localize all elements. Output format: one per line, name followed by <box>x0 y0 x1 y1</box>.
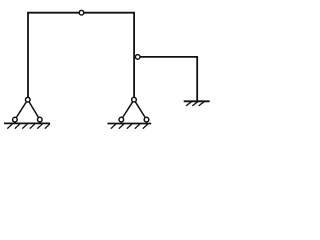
node middle support apex pin <box>132 97 137 102</box>
ground right baseline <box>184 100 210 102</box>
node left support bottom-right pin <box>38 117 43 122</box>
node hinge on middle column <box>135 55 140 60</box>
node hinge on top beam <box>79 10 84 15</box>
wire middle support right link <box>134 100 147 120</box>
node left support bottom-left pin <box>13 117 18 122</box>
wire top beam <box>28 12 134 14</box>
ground right hatching <box>186 102 204 106</box>
ground left baseline <box>4 122 50 124</box>
wire right horizontal beam <box>138 56 198 58</box>
wire middle column <box>133 13 135 100</box>
ground middle hatching <box>111 124 148 129</box>
node middle support bottom-right pin <box>144 117 149 122</box>
node middle support bottom-left pin <box>119 117 124 122</box>
wire left column <box>27 13 29 100</box>
ground middle baseline <box>108 123 152 125</box>
node left support apex pin <box>26 97 31 102</box>
wire right vertical member <box>196 57 198 101</box>
wire left support left link <box>15 100 28 120</box>
ground left hatching <box>7 124 50 129</box>
wire middle support left link <box>121 100 134 120</box>
wire left support right link <box>28 100 40 120</box>
